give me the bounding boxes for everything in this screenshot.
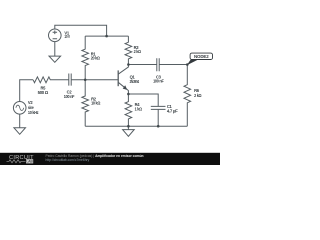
- svg-text:2 kΩ: 2 kΩ: [194, 93, 202, 98]
- svg-text:500 Ω: 500 Ω: [38, 90, 49, 95]
- capacitor C1: [151, 106, 166, 109]
- wire emitter to C1: [128, 94, 158, 106]
- ground bus wire: [85, 125, 187, 127]
- svg-text:20 kΩ: 20 kΩ: [91, 56, 101, 61]
- capacitor C3: [157, 58, 159, 71]
- svg-text:10 kHz: 10 kHz: [28, 110, 39, 115]
- svg-text:2 kΩ: 2 kΩ: [134, 49, 142, 54]
- svg-text:NODE2: NODE2: [194, 54, 209, 59]
- resistor R4: [125, 94, 132, 126]
- resistor R2: [82, 80, 89, 126]
- wire V2 bottom: [19, 114, 21, 128]
- svg-text:1 kΩ: 1 kΩ: [135, 106, 143, 111]
- resistor R6: [184, 65, 191, 127]
- footer bar: [0, 153, 220, 165]
- wire C1 to bus: [157, 109, 159, 126]
- svg-text:http://circuitlab.com/c7me6hry: http://circuitlab.com/c7me6hry: [46, 158, 90, 162]
- transistor Q1: [117, 70, 119, 86]
- capacitor C2: [69, 74, 71, 86]
- resistor R1: [82, 36, 89, 80]
- wire V2 top to R5: [20, 80, 33, 102]
- wire rail R1 to R3: [85, 35, 128, 37]
- ground (V1): [49, 56, 61, 62]
- resistor R5: [33, 77, 69, 83]
- svg-text:LAB: LAB: [26, 160, 33, 164]
- wire ground stem: [127, 126, 129, 129]
- footer logo LAB box: [26, 159, 33, 163]
- sine glyph: [16, 105, 24, 110]
- svg-text:2N3904: 2N3904: [130, 79, 140, 84]
- resistor R3: [125, 36, 132, 64]
- wire C2 to base node: [71, 79, 118, 81]
- svg-text:100 nF: 100 nF: [64, 94, 75, 99]
- wire V1 top to top rail: [55, 25, 107, 36]
- wire V1 bottom: [54, 42, 56, 57]
- node junction dots: [84, 35, 189, 128]
- voltage source V1: [49, 29, 62, 42]
- svg-text:4.7 µF: 4.7 µF: [167, 109, 178, 114]
- svg-text:100 nF: 100 nF: [153, 79, 164, 84]
- svg-text:10 kΩ: 10 kΩ: [91, 101, 101, 106]
- footer logo zigzag: [7, 160, 26, 163]
- node NODE2 flag: [187, 59, 199, 65]
- wire C3 to NODE2: [159, 64, 187, 66]
- ground (main): [123, 130, 135, 137]
- ground (V2): [14, 128, 26, 135]
- wire collector to C3: [128, 64, 156, 66]
- voltage source V2: [13, 102, 26, 115]
- svg-text:10 V: 10 V: [64, 34, 70, 39]
